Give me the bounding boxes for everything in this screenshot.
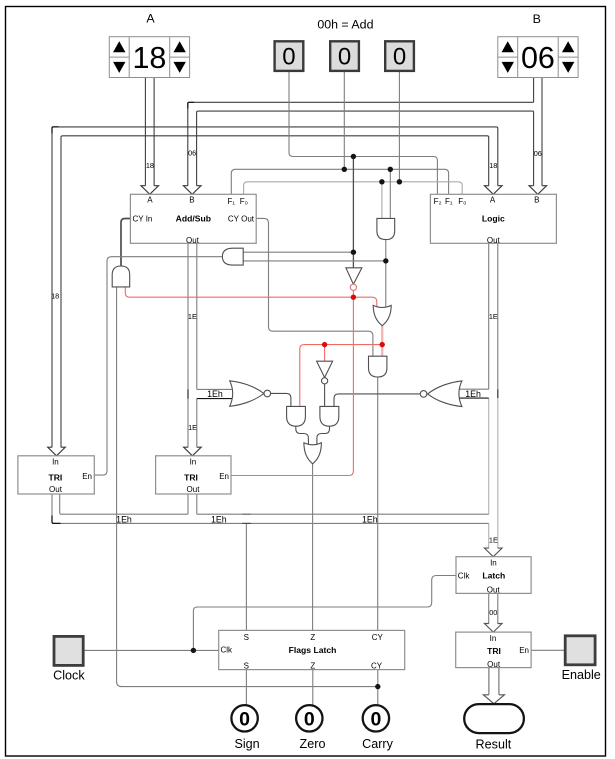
svg-text:1E: 1E — [489, 312, 498, 321]
svg-text:Result: Result — [476, 738, 512, 752]
svg-text:Out: Out — [186, 236, 200, 245]
svg-text:CY Out: CY Out — [228, 215, 255, 224]
svg-text:S: S — [244, 633, 249, 642]
svg-text:18: 18 — [146, 161, 154, 170]
svg-text:Logic: Logic — [482, 214, 505, 224]
svg-text:0: 0 — [239, 708, 250, 730]
svg-text:Z: Z — [310, 661, 315, 670]
svg-text:Enable: Enable — [562, 668, 601, 682]
svg-text:F₁: F₁ — [228, 197, 236, 206]
svg-text:A: A — [146, 12, 155, 26]
svg-text:S: S — [244, 661, 249, 670]
svg-text:Latch: Latch — [482, 570, 505, 580]
svg-text:B: B — [189, 195, 194, 204]
svg-text:TRI: TRI — [48, 472, 62, 482]
svg-text:Carry: Carry — [362, 737, 393, 751]
svg-text:In: In — [52, 458, 59, 467]
svg-text:0: 0 — [282, 44, 295, 71]
svg-text:1Eh: 1Eh — [211, 514, 227, 524]
svg-text:1Eh: 1Eh — [465, 389, 481, 399]
svg-text:06: 06 — [188, 149, 196, 158]
svg-text:1E: 1E — [489, 536, 498, 545]
svg-text:B: B — [534, 195, 539, 204]
svg-text:Zero: Zero — [300, 737, 326, 751]
svg-text:In: In — [190, 458, 197, 467]
svg-text:1E: 1E — [188, 312, 197, 321]
svg-text:1E: 1E — [188, 423, 197, 432]
svg-text:18: 18 — [132, 41, 166, 75]
svg-text:A: A — [147, 195, 153, 204]
svg-text:06: 06 — [534, 149, 542, 158]
svg-text:0: 0 — [338, 44, 351, 71]
svg-text:06: 06 — [521, 41, 555, 75]
svg-text:F₀: F₀ — [240, 197, 248, 206]
svg-text:F₁: F₁ — [445, 197, 453, 206]
svg-text:F₂: F₂ — [434, 197, 442, 206]
svg-text:In: In — [490, 559, 497, 568]
svg-text:En: En — [519, 646, 529, 655]
svg-text:Out: Out — [487, 585, 501, 594]
svg-text:00h = Add: 00h = Add — [317, 17, 373, 31]
svg-text:18: 18 — [51, 291, 59, 300]
svg-text:En: En — [82, 472, 92, 481]
svg-text:Clk: Clk — [458, 571, 471, 580]
svg-text:00: 00 — [489, 608, 497, 617]
svg-text:Out: Out — [187, 485, 201, 494]
svg-text:CY: CY — [372, 633, 384, 642]
svg-text:1Eh: 1Eh — [207, 389, 223, 399]
svg-text:0: 0 — [304, 708, 315, 730]
svg-text:Out: Out — [49, 485, 63, 494]
svg-text:Add/Sub: Add/Sub — [176, 214, 211, 224]
svg-text:F₀: F₀ — [458, 197, 466, 206]
svg-text:Clk: Clk — [221, 646, 234, 655]
svg-text:Out: Out — [487, 236, 501, 245]
svg-text:Out: Out — [487, 660, 501, 669]
svg-text:Sign: Sign — [234, 737, 259, 751]
svg-text:En: En — [219, 472, 229, 481]
svg-text:0: 0 — [393, 44, 406, 71]
svg-text:B: B — [533, 12, 541, 26]
svg-text:In: In — [490, 634, 497, 643]
svg-text:0: 0 — [370, 708, 381, 730]
svg-text:CY In: CY In — [133, 215, 153, 224]
svg-text:Z: Z — [310, 633, 315, 642]
svg-text:TRI: TRI — [487, 646, 501, 656]
svg-text:1Eh: 1Eh — [362, 514, 378, 524]
svg-text:A: A — [490, 195, 496, 204]
svg-text:1Eh: 1Eh — [116, 514, 132, 524]
svg-text:CY: CY — [371, 661, 383, 670]
svg-text:Clock: Clock — [53, 669, 85, 683]
svg-text:18: 18 — [489, 161, 497, 170]
svg-text:TRI: TRI — [184, 472, 198, 482]
svg-text:Flags Latch: Flags Latch — [289, 645, 337, 655]
